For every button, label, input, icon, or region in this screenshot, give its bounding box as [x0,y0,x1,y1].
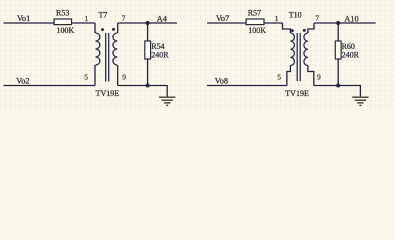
pin 9 of T10 [308,66,314,86]
pin 7 of T10 [308,23,314,33]
resistor R54 [145,41,151,59]
wire R54 top lead [147,23,149,41]
svg-text:240R: 240R [342,51,360,60]
svg-text:1: 1 [85,14,89,23]
svg-text:Vo8: Vo8 [215,76,228,85]
wire transformer pin 9 to ground [118,86,168,97]
polarity dot secondary T7 [112,28,115,31]
polarity dot primary T10 [291,29,294,32]
svg-text:9: 9 [122,73,126,82]
svg-text:9: 9 [317,73,321,82]
wire R60 bottom lead [337,59,339,86]
pin 1 of T7 [94,23,96,33]
svg-text:R53: R53 [56,9,69,18]
transformer T7 [95,23,118,86]
svg-text:1: 1 [275,14,279,23]
pin 7 of T7 [117,23,119,33]
secondary winding of T7 [113,33,117,65]
wire transformer pin 7 to A10 [314,22,376,24]
primary winding of T7 [96,33,100,65]
svg-text:240R: 240R [151,51,169,60]
resistor R53 [54,19,72,25]
resistor R57 [246,19,264,25]
transformer T10 [283,23,315,86]
svg-text:R60: R60 [342,42,355,51]
svg-text:A4: A4 [157,15,168,24]
wire Vo8 to transformer pin 5 [207,85,287,87]
pin 5 of T7 [94,65,96,86]
svg-text:7: 7 [315,14,319,23]
secondary winding of T10 [304,33,308,66]
wire Vo7 to transformer pin 1 [207,22,283,24]
junction node bottom R60 [336,84,340,88]
resistor R60 [335,41,341,59]
core of T7 [106,33,109,82]
svg-text:A10: A10 [344,15,358,24]
junction node A10/R60 top [336,21,340,25]
junction node bottom R54 [146,84,150,88]
wire R54 bottom lead [147,59,149,86]
svg-text:T10: T10 [289,10,302,19]
wire transformer pin 7 to A4 [118,22,177,24]
pin 1 of T10 [283,23,291,33]
svg-text:Vo7: Vo7 [216,14,229,23]
svg-text:5: 5 [84,73,88,82]
svg-text:5: 5 [277,73,281,82]
svg-text:7: 7 [122,14,126,23]
svg-text:Vo1: Vo1 [17,14,30,23]
svg-text:Vo2: Vo2 [16,76,29,85]
ground [159,97,175,105]
polarity dot secondary T10 [303,29,306,32]
pin 5 of T10 [287,66,291,86]
wire transformer pin 9 to ground [314,86,361,97]
svg-text:R57: R57 [248,9,261,18]
wire Vo2 to transformer pin 5 [4,85,96,87]
polarity dot primary T7 [101,28,104,31]
svg-text:TV19E: TV19E [285,89,309,98]
ground [352,97,368,105]
primary winding of T10 [290,33,294,66]
wire Vo1 to transformer pin 1 [4,22,96,24]
svg-text:T7: T7 [99,10,108,19]
svg-text:100K: 100K [57,26,75,35]
svg-text:R54: R54 [151,42,164,51]
pin 9 of T7 [117,65,119,86]
svg-text:TV19E: TV19E [96,89,120,98]
junction node A4/R54 top [146,21,150,25]
wire R60 top lead [337,23,339,41]
core of T10 [297,33,300,81]
svg-text:100K: 100K [248,26,266,35]
